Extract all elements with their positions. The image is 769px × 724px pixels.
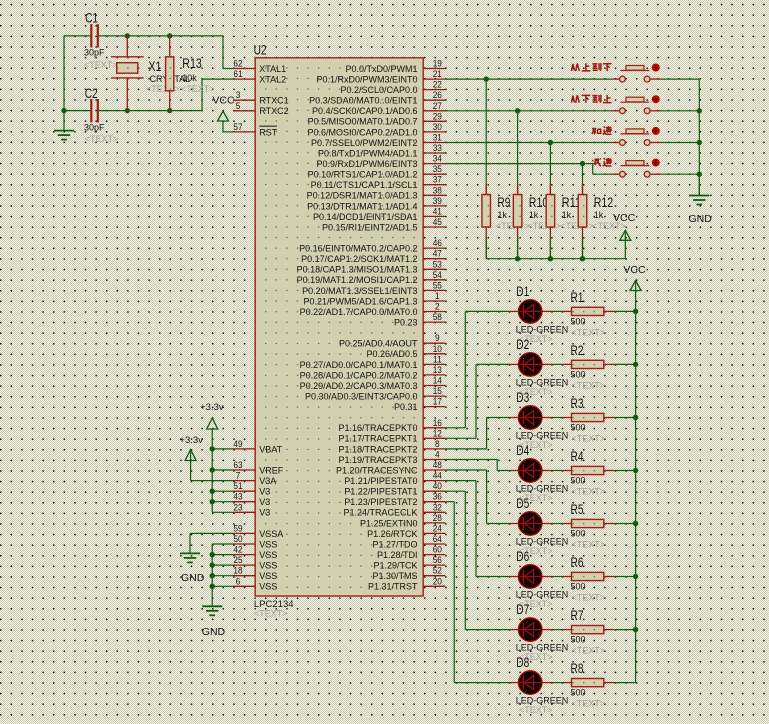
svg-text:37: 37: [433, 175, 442, 186]
svg-text:<TEXT>: <TEXT>: [84, 60, 118, 70]
U2 pin 9 (P0.25/AD0.4/AOUT): [339, 333, 445, 348]
svg-text:9: 9: [435, 333, 440, 344]
button SW1 red actuator marker: [652, 64, 659, 71]
button SW3 red actuator marker: [652, 127, 659, 134]
svg-text:GND: GND: [689, 213, 713, 225]
svg-text:LED-GREEN: LED-GREEN: [516, 431, 569, 441]
svg-text:R7: R7: [571, 607, 584, 623]
svg-text:P1.26/RTCK: P1.26/RTCK: [367, 529, 417, 539]
svg-text:D1: D1: [516, 283, 529, 299]
svg-text:13: 13: [433, 365, 442, 376]
svg-text:VBAT: VBAT: [259, 444, 282, 454]
svg-text:10: 10: [433, 344, 442, 355]
U2 pin 58 (P0.23): [394, 312, 445, 327]
svg-text:60: 60: [433, 545, 442, 556]
svg-text:XTAL1: XTAL1: [259, 64, 286, 74]
svg-text:500: 500: [571, 316, 586, 326]
wire U2 pin row to button 2 (junction to pull-up R10): [445, 108, 611, 113]
wire U2 P1.17 to LED D2: [445, 364, 510, 438]
svg-text:35: 35: [433, 164, 442, 175]
svg-text:14: 14: [433, 376, 442, 387]
svg-text:+3.3v: +3.3v: [200, 402, 224, 413]
svg-text:36: 36: [433, 492, 442, 503]
svg-text:D5: D5: [516, 495, 529, 511]
svg-text:51: 51: [233, 481, 242, 492]
svg-text:RST: RST: [259, 127, 278, 137]
wire U2 P1.21 to LED D6: [445, 481, 510, 577]
U2 pin 46 (P0.16/EINT0/MAT0.2/CAP0.2): [299, 238, 445, 253]
U2 pin 55 (P0.20/MAT1.3/SSEL1/EINT3): [302, 280, 445, 295]
U2 pin 27 (P0.4/SCK0/CAP0.1/AD0.6): [312, 101, 445, 116]
U2 pin 25 (VSS): [233, 555, 277, 570]
U2 pin 10 (P0.26/AD0.5): [366, 344, 445, 359]
U2 pin 52 (P1.30/TMS): [372, 566, 445, 581]
svg-text:26: 26: [433, 90, 442, 101]
U2 pin 32 (P1.24/TRACECLK): [343, 502, 445, 517]
svg-text:47: 47: [433, 249, 442, 260]
button SW4 (push button): [611, 161, 661, 178]
svg-text:33: 33: [433, 143, 442, 154]
button SW4 chinese label: [592, 158, 612, 166]
svg-text:30pF: 30pF: [84, 123, 105, 133]
wire U2 pin row to button 3 (junction to pull-up R11): [445, 140, 611, 145]
U2 pin 43 (V3): [233, 492, 270, 507]
svg-text:R8: R8: [571, 660, 584, 676]
svg-text:<TEXT>: <TEXT>: [572, 699, 606, 709]
svg-text:V3: V3: [259, 497, 270, 507]
svg-text:24: 24: [433, 523, 442, 534]
svg-text:P0.18/CAP1.3/MISO1/MAT1.3: P0.18/CAP1.3/MISO1/MAT1.3: [297, 265, 418, 275]
wire net XTAL2: bottom rail from GND corner through C2/X1/R13 to U2 pin 61: [61, 36, 233, 113]
svg-text:P0.6/MOSI0/CAP0.2/AD1.0: P0.6/MOSI0/CAP0.2/AD1.0: [307, 127, 417, 137]
svg-text:P0.16/EINT0/MAT0.2/CAP0.2: P0.16/EINT0/MAT0.2/CAP0.2: [299, 244, 417, 254]
U2 pin 18 (VSS): [233, 566, 277, 581]
svg-text:D7: D7: [516, 601, 529, 617]
svg-text:P1.31/TRST: P1.31/TRST: [368, 582, 418, 592]
svg-text:R13: R13: [182, 55, 202, 71]
svg-text:RTXC1: RTXC1: [259, 96, 288, 106]
LED D3 LED-GREEN: [510, 389, 568, 450]
U2 pin 57 (RST): [233, 122, 278, 137]
LED D4 LED-GREEN: [510, 442, 568, 503]
svg-text:1k: 1k: [497, 210, 507, 220]
svg-text:P1.30/TMS: P1.30/TMS: [372, 571, 417, 581]
wire LED supply rail: [633, 309, 638, 683]
svg-text:1k: 1k: [529, 210, 539, 220]
U2 pin 41 (P0.14/DCD1/EINT1/SDA1): [313, 206, 445, 221]
svg-text:VSS: VSS: [259, 561, 277, 571]
U2 pin 5 (RTXC2): [233, 101, 289, 116]
svg-text:LED-GREEN: LED-GREEN: [516, 484, 569, 494]
svg-text:P0.31: P0.31: [394, 402, 418, 412]
wire U2 P1.22 to LED D7: [445, 491, 510, 629]
svg-text:P1.18/TRACEPKT2: P1.18/TRACEPKT2: [338, 444, 417, 454]
wire U2 P1.16 to LED D1: [445, 311, 510, 427]
capacitor C1 30pF: [84, 10, 118, 71]
svg-text:6: 6: [236, 576, 241, 587]
U2 pin 50 (VSS): [233, 534, 277, 549]
svg-text:P0.28/AD0.1/CAP0.2/MAT0.2: P0.28/AD0.1/CAP0.2/MAT0.2: [300, 370, 418, 380]
resistor R1 500: [553, 289, 636, 338]
svg-text:P0.2/SCL0/CAP0.0: P0.2/SCL0/CAP0.0: [340, 85, 417, 95]
U2 pin 12 (P1.17/TRACEPKT1): [338, 428, 445, 443]
svg-text:GND: GND: [181, 572, 205, 584]
svg-text:500: 500: [571, 369, 586, 379]
svg-text:P0.7/SSEL0/PWM2/EINT2: P0.7/SSEL0/PWM2/EINT2: [311, 138, 418, 148]
svg-text:500: 500: [571, 582, 586, 592]
resistor R4 500: [553, 448, 636, 497]
svg-text:P0.29/AD0.2/CAP0.3/MAT0.3: P0.29/AD0.2/CAP0.3/MAT0.3: [300, 381, 418, 391]
svg-text:52: 52: [433, 566, 442, 577]
wire U2 pin row to button 4 (junction to pull-up R12): [445, 161, 611, 174]
svg-text:34: 34: [433, 154, 442, 165]
button SW1 chinese label: [572, 63, 612, 71]
svg-text:P0.21/PWM5/AD1.6/CAP1.3: P0.21/PWM5/AD1.6/CAP1.3: [303, 296, 417, 306]
svg-text:<TEXT>: <TEXT>: [572, 540, 606, 550]
svg-text:P1.16/TRACEPKT0: P1.16/TRACEPKT0: [338, 423, 417, 433]
svg-text:43: 43: [233, 492, 242, 503]
svg-text:19: 19: [433, 59, 442, 70]
svg-text:R5: R5: [571, 501, 584, 517]
svg-text:12: 12: [433, 428, 442, 439]
svg-text:57: 57: [233, 122, 242, 133]
svg-text:D4: D4: [516, 442, 529, 458]
U2 pin 36 (P1.23/PIPESTAT2): [344, 492, 445, 507]
svg-text:64: 64: [433, 534, 442, 545]
button SW2 (push button): [611, 97, 661, 114]
LED D8 LED-GREEN: [510, 654, 568, 715]
svg-text:P0.26/AD0.5: P0.26/AD0.5: [366, 349, 417, 359]
U2 pin 19 (P0.0/TxD0/PWM1): [345, 59, 445, 74]
button SW3 (push button): [611, 129, 661, 146]
svg-text:D8: D8: [516, 654, 529, 670]
svg-text:+3.3v: +3.3v: [179, 435, 203, 446]
svg-text:P1.28/TDI: P1.28/TDI: [377, 550, 418, 560]
svg-text:VCC: VCC: [623, 264, 646, 276]
svg-text:VSSA: VSSA: [259, 529, 283, 539]
wire U2 P1.18 to LED D3: [445, 418, 510, 449]
svg-text:P0.23: P0.23: [394, 318, 418, 328]
svg-text:LED-GREEN: LED-GREEN: [516, 590, 569, 600]
svg-text:25: 25: [233, 555, 242, 566]
svg-text:VSS: VSS: [259, 550, 277, 560]
U2 pin 17 (P0.31): [394, 397, 445, 412]
svg-text:VSS: VSS: [259, 582, 277, 592]
U2 pin 14 (P0.29/AD0.2/CAP0.3/MAT0.3): [300, 376, 446, 391]
U2 pin 26 (P0.3/SDA0/MAT0..0/EINT1): [309, 90, 445, 105]
svg-text:53: 53: [433, 259, 442, 270]
wire button outputs to GND rail: [661, 79, 702, 195]
U2 pin 29 (P0.5/MISO0/MAT0.1/AD0.7): [308, 111, 446, 126]
svg-text:27: 27: [433, 101, 442, 112]
U2 pin 63 (VREF): [233, 460, 284, 475]
svg-text:<TEXT>: <TEXT>: [527, 221, 561, 231]
svg-text:42: 42: [233, 545, 242, 556]
U2 pin 64 (P1.27/TDO): [372, 534, 445, 549]
svg-text:P0.17/CAP1.2/SCK1/MAT1.2: P0.17/CAP1.2/SCK1/MAT1.2: [301, 254, 417, 264]
svg-text:V3: V3: [259, 508, 270, 518]
resistor R3 500: [553, 395, 636, 444]
svg-text:R4: R4: [571, 448, 584, 464]
svg-text:P0.8/TxD1/PWM4/AD1.1: P0.8/TxD1/PWM4/AD1.1: [318, 148, 418, 158]
svg-text:59: 59: [233, 523, 242, 534]
svg-text:R12: R12: [594, 194, 614, 210]
svg-text:5: 5: [236, 101, 241, 112]
svg-text:P1.23/PIPESTAT2: P1.23/PIPESTAT2: [344, 497, 417, 507]
svg-text:<TEXT>: <TEXT>: [572, 487, 606, 497]
svg-text:31: 31: [433, 133, 442, 144]
svg-text:17: 17: [433, 397, 442, 408]
svg-text:500: 500: [571, 635, 586, 645]
U2 pin 31 (P0.7/SSEL0/PWM2/EINT2): [311, 133, 445, 148]
U2 pin 28 (P1.25/EXTIN0): [360, 513, 445, 528]
U2 pin 40 (P1.22/PIPESTAT1): [344, 481, 445, 496]
svg-text:U2: U2: [254, 42, 267, 58]
LED D2 LED-GREEN: [510, 336, 568, 397]
svg-text:RTXC2: RTXC2: [259, 106, 288, 116]
capacitor C2 30pF: [84, 85, 118, 144]
U2 pin 34 (P0.9/RxD1/PWM6/EINT3): [316, 154, 445, 169]
svg-text:P1.24/TRACECLK: P1.24/TRACECLK: [343, 508, 417, 518]
svg-text:<TEXT>: <TEXT>: [85, 134, 119, 144]
U2 pin 62 (XTAL1): [233, 59, 286, 74]
U2 pin 13 (P0.28/AD0.1/CAP0.2/MAT0.2): [300, 365, 446, 380]
svg-text:<TEXT>: <TEXT>: [572, 327, 606, 337]
svg-text:V3: V3: [259, 487, 270, 497]
svg-text:3: 3: [236, 90, 241, 101]
svg-text:<TEXT>: <TEXT>: [572, 434, 606, 444]
svg-text:P0.30/AD0.3/EINT3/CAP0.0: P0.30/AD0.3/EINT3/CAP0.0: [305, 392, 418, 402]
svg-text:50: 50: [233, 534, 242, 545]
power +3.3v (VBAT/VREF/V3 rail): [200, 402, 233, 512]
U2 pin 49 (VBAT): [233, 439, 283, 454]
svg-text:44: 44: [433, 471, 442, 482]
svg-text:D6: D6: [516, 548, 529, 564]
U2 pin 39 (P0.13/DTR1/MAT1.1/AD1.4): [307, 196, 445, 211]
svg-text:23: 23: [233, 502, 242, 513]
svg-text:41: 41: [433, 206, 442, 217]
power VCC (LED rail): [623, 264, 646, 311]
svg-text:<TEXT>: <TEXT>: [572, 380, 606, 390]
U2 pin 44 (P1.21/PIPESTAT0): [344, 471, 445, 486]
svg-text:P0.19/MAT1.2/MOSI1/CAP1.2: P0.19/MAT1.2/MOSI1/CAP1.2: [297, 275, 418, 285]
svg-text:D3: D3: [516, 389, 529, 405]
svg-text:49: 49: [233, 439, 242, 450]
svg-text:39: 39: [433, 196, 442, 207]
resistor R11 1k: [546, 143, 594, 259]
svg-text:<TEXT>: <TEXT>: [572, 646, 606, 656]
svg-text:R6: R6: [571, 554, 584, 570]
svg-text:500: 500: [571, 688, 586, 698]
svg-text:C2: C2: [85, 85, 98, 101]
svg-text:<TEXT>: <TEXT>: [560, 221, 594, 231]
ground (crystal): [54, 111, 74, 140]
U2 pin 38 (P0.12/DSR1/MAT1.0/AD1.3): [307, 185, 446, 200]
svg-text:P1.27/TDO: P1.27/TDO: [372, 539, 417, 549]
LED D5 LED-GREEN: [510, 495, 568, 556]
svg-text:P0.25/AD0.4/AOUT: P0.25/AD0.4/AOUT: [339, 339, 418, 349]
svg-text:<TEXT>: <TEXT>: [519, 705, 553, 715]
svg-text:P0.13/DTR1/MAT1.1/AD1.4: P0.13/DTR1/MAT1.1/AD1.4: [307, 201, 417, 211]
U2 pin 37 (P0.11/CTS1/CAP1.1/SCL1): [311, 175, 446, 190]
svg-text:C1: C1: [85, 10, 98, 26]
resistor R8 500: [553, 660, 636, 709]
U2 pin 61 (XTAL2): [233, 69, 286, 84]
svg-text:15: 15: [433, 386, 442, 397]
resistor R10 1k: [513, 111, 561, 259]
button SW2 red actuator marker: [652, 96, 659, 103]
svg-text:7: 7: [236, 471, 241, 482]
svg-text:XTAL2: XTAL2: [259, 75, 286, 85]
svg-text:4: 4: [435, 450, 440, 461]
U2 pin 6 (VSS): [233, 576, 277, 591]
svg-text:V3A: V3A: [259, 476, 276, 486]
wire VSS rail: [210, 544, 234, 589]
U2 pin 11 (P0.27/AD0.0/CAP0.1/MAT0.1): [300, 354, 446, 369]
svg-text:R2: R2: [571, 342, 584, 358]
svg-text:21: 21: [433, 69, 442, 80]
U2 pin 45 (P0.15/RI1/EINT2/AD1.5): [322, 217, 445, 232]
svg-text:<TEXT>: <TEXT>: [254, 609, 288, 619]
svg-text:P0.1/RxD0/PWM3/EINT0: P0.1/RxD0/PWM3/EINT0: [316, 75, 417, 85]
svg-text:56: 56: [433, 555, 442, 566]
wire U2 P1.23 to LED D8: [445, 502, 510, 683]
ground (VSSA): [180, 533, 205, 584]
svg-text:58: 58: [433, 312, 442, 323]
wire U2 pin row to button 1 (junction to pull-up R9): [445, 76, 611, 81]
svg-text:<TEXT>: <TEXT>: [572, 593, 606, 603]
wire VSSA to ground: [190, 532, 233, 534]
svg-text:18: 18: [233, 566, 242, 577]
resistor R9 1k: [482, 79, 530, 259]
svg-text:45: 45: [433, 217, 442, 228]
resistor R2 500: [553, 342, 636, 391]
svg-text:62: 62: [233, 59, 242, 70]
svg-text:P0.20/MAT1.3/SSEL1/EINT3: P0.20/MAT1.3/SSEL1/EINT3: [302, 286, 417, 296]
svg-text:P0.4/SCK0/CAP0.1/AD0.6: P0.4/SCK0/CAP0.1/AD0.6: [312, 106, 418, 116]
U2 pin 8 (P1.18/TRACEPKT2): [338, 439, 445, 454]
svg-text:VSS: VSS: [259, 571, 277, 581]
U2 pin 53 (P0.18/CAP1.3/MISO1/MAT1.3): [297, 259, 446, 274]
U2 pin 51 (V3): [233, 481, 270, 496]
button SW2 chinese label: [572, 95, 612, 103]
svg-text:40: 40: [433, 481, 442, 492]
svg-text:11: 11: [433, 354, 442, 365]
svg-text:38: 38: [433, 185, 442, 196]
U2 pin 20 (P1.31/TRST): [368, 576, 445, 591]
wire U2 P1.20 to LED D5: [445, 470, 510, 524]
svg-text:<TEXT>: <TEXT>: [181, 84, 215, 94]
svg-text:30: 30: [433, 122, 442, 133]
svg-text:P0.12/DSR1/MAT1.0/AD1.3: P0.12/DSR1/MAT1.0/AD1.3: [307, 191, 418, 201]
resistor R5 500: [553, 501, 636, 550]
svg-text:P0.0/TxD0/PWM1: P0.0/TxD0/PWM1: [345, 64, 417, 74]
U2 pin 4 (P1.19/TRACEPKT3): [338, 450, 445, 465]
U2 pin 42 (VSS): [233, 545, 277, 560]
U2 pin 47 (P0.17/CAP1.2/SCK1/MAT1.2): [301, 249, 445, 264]
svg-text:P0.3/SDA0/MAT0..0/EINT1: P0.3/SDA0/MAT0..0/EINT1: [309, 96, 417, 106]
U2 pin 35 (P0.10/RTS1/CAP1.0/AD1.2): [308, 164, 446, 179]
svg-text:28: 28: [433, 513, 442, 524]
svg-text:<TEXT>: <TEXT>: [592, 221, 626, 231]
crystal X1 CRYSTAL: [111, 36, 190, 111]
svg-text:48: 48: [433, 460, 442, 471]
resistor R7 500: [553, 607, 636, 656]
svg-text:VCC: VCC: [212, 94, 235, 106]
svg-text:LED-GREEN: LED-GREEN: [516, 324, 569, 334]
resistor R12 1k: [578, 164, 626, 259]
U2 pin 7 (V3A): [233, 471, 276, 486]
svg-text:1k: 1k: [594, 210, 604, 220]
svg-text:61: 61: [233, 69, 242, 80]
svg-text:P0.5/MISO0/MAT0.1/AD0.7: P0.5/MISO0/MAT0.1/AD0.7: [308, 117, 418, 127]
svg-text:16: 16: [433, 418, 442, 429]
U2 pin 24 (P1.26/RTCK): [367, 523, 445, 538]
U2 pin 1 (P0.21/PWM5/AD1.6/CAP1.3): [303, 291, 445, 306]
power VCC (to RST pin 57): [212, 94, 235, 131]
svg-text:LED-GREEN: LED-GREEN: [516, 537, 569, 547]
U2 pin 16 (P1.16/TRACEPKT0): [338, 418, 445, 433]
svg-text:46: 46: [433, 238, 442, 249]
U2 pin 21 (P0.1/RxD0/PWM3/EINT0): [316, 69, 445, 84]
LED D6 LED-GREEN: [510, 548, 568, 609]
svg-text:P0.11/CTS1/CAP1.1/SCL1: P0.11/CTS1/CAP1.1/SCL1: [311, 180, 418, 190]
svg-text:10k: 10k: [182, 73, 197, 83]
svg-text:P1.21/PIPESTAT0: P1.21/PIPESTAT0: [344, 476, 417, 486]
svg-text:55: 55: [433, 280, 442, 291]
svg-text:20: 20: [433, 576, 442, 587]
svg-text:8: 8: [435, 439, 440, 450]
svg-text:500: 500: [571, 423, 586, 433]
U2 pin 23 (V3): [233, 502, 270, 517]
svg-text:R3: R3: [571, 395, 584, 411]
svg-text:P1.25/EXTIN0: P1.25/EXTIN0: [360, 518, 418, 528]
svg-text:1: 1: [435, 291, 440, 302]
svg-text:LED-GREEN: LED-GREEN: [516, 643, 569, 653]
svg-text:P0.27/AD0.0/CAP0.1/MAT0.1: P0.27/AD0.0/CAP0.1/MAT0.1: [300, 360, 418, 370]
svg-text:P1.17/TRACEPKT1: P1.17/TRACEPKT1: [338, 434, 417, 444]
button SW3 chinese label: [592, 126, 612, 134]
svg-text:D2: D2: [516, 336, 529, 352]
svg-text:P0.15/RI1/EINT2/AD1.5: P0.15/RI1/EINT2/AD1.5: [322, 222, 418, 232]
U2 pin 56 (P1.29/TCK): [373, 555, 445, 570]
resistor R13 10k: [166, 36, 215, 111]
svg-text:P1.29/TCK: P1.29/TCK: [373, 561, 417, 571]
svg-text:P0.14/DCD1/EINT1/SDA1: P0.14/DCD1/EINT1/SDA1: [313, 212, 418, 222]
resistor R6 500: [553, 554, 636, 603]
U2 pin 60 (P1.28/TDI): [377, 545, 445, 560]
svg-text:P1.22/PIPESTAT1: P1.22/PIPESTAT1: [344, 487, 417, 497]
svg-text:LED-GREEN: LED-GREEN: [516, 377, 569, 387]
U2 pin 2 (P0.22/AD1.7/CAP0.0/MAT0.0): [300, 302, 446, 317]
U2 pin 54 (P0.19/MAT1.2/MOSI1/CAP1.2): [297, 270, 446, 285]
svg-text:R9: R9: [497, 194, 510, 210]
svg-text:32: 32: [433, 502, 442, 513]
svg-text:R1: R1: [571, 289, 584, 305]
U2 pin 59 (VSSA): [233, 523, 283, 538]
IC U2 (LPC2134 microcontroller): [254, 42, 424, 619]
svg-text:VSS: VSS: [259, 539, 277, 549]
svg-text:63: 63: [233, 460, 242, 471]
svg-text:500: 500: [571, 476, 586, 486]
svg-text:GND: GND: [202, 626, 226, 638]
wire U2 P1.19 to LED D4: [445, 460, 510, 471]
ground (VSS rail): [202, 586, 226, 638]
U2 pin 48 (P1.20/TRACESYNC): [336, 460, 445, 475]
U2 pin 33 (P0.8/TxD1/PWM4/AD1.1): [318, 143, 445, 158]
U2 pin 15 (P0.30/AD0.3/EINT3/CAP0.0): [305, 386, 445, 401]
wire net XTAL1: top rail from C1 through X1/R13 to U2 pin 62: [64, 33, 233, 68]
